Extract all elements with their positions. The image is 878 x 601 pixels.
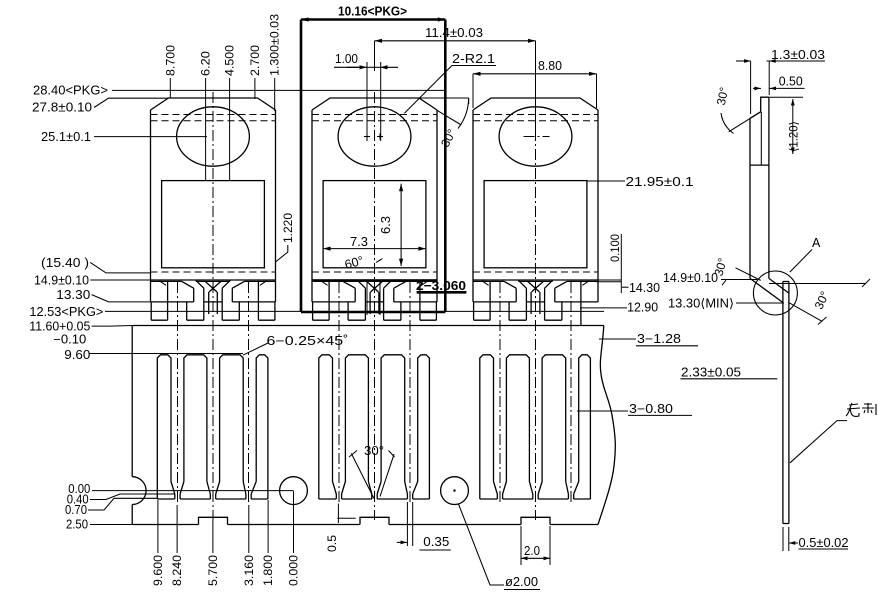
package P2 dashed line near bottom [312, 271, 437, 273]
dimension 7.3 inside P2 pad [323, 248, 426, 250]
svg-text:⟨1.20⟩: ⟨1.20⟩ [788, 121, 801, 152]
svg-text:1.300±0.03: 1.300±0.03 [270, 14, 282, 76]
svg-text:0.000: 0.000 [289, 555, 301, 586]
P2 emphasized bottom line [312, 279, 437, 282]
P1 lead shoulder B (right) with chamfer [232, 281, 244, 288]
10.16 PKG thick dimension box [301, 18, 445, 21]
package P3 body outline [473, 98, 598, 110]
P1 slot 2 [184, 355, 207, 482]
package P1 body outline [151, 98, 276, 110]
strip left edge with half-hole notch [131, 326, 133, 477]
P3 slot 2 [506, 355, 529, 482]
dimension 6.3 inside P2 pad [400, 184, 402, 266]
svg-text:7.3: 7.3 [350, 235, 368, 249]
P3 outer shoulder notch slashes [482, 281, 489, 286]
P3 slot 1 [480, 355, 494, 499]
side view section tick and inner lead line [750, 164, 769, 166]
package P3 inner pad rectangle [484, 181, 587, 268]
tooling hole 1 in rail [280, 477, 308, 505]
side view tip chamfer and front edge [750, 112, 761, 119]
svg-text:−0.10: −0.10 [53, 333, 86, 347]
svg-text:25.1±0.1: 25.1±0.1 [41, 130, 91, 144]
svg-text:0.5±0.02: 0.5±0.02 [799, 536, 849, 550]
svg-text:2.50: 2.50 [66, 518, 88, 532]
package P3 dashed line near bottom [473, 271, 598, 273]
svg-text:9.600: 9.600 [153, 555, 165, 586]
P2 lead shoulder A (left) with chamfer [343, 281, 355, 288]
svg-text:ø2.00: ø2.00 [505, 575, 538, 589]
P3 shoulder bottom edge segments [473, 301, 516, 303]
svg-text:4.500: 4.500 [225, 45, 237, 76]
package P3 vertical centerline [535, 92, 537, 520]
P1 center lead crossed notch [205, 281, 217, 292]
svg-text:6−0.25×45˚: 6−0.25×45˚ [267, 334, 349, 348]
P1 shoulder bottom edge segments [151, 301, 194, 303]
strip bottom edge with index notches [132, 524, 198, 526]
ordinate leaders 8.700/6.20/4.500/2.700/1.300 into P1 [169, 78, 171, 99]
package P3 mounting hole ellipse [499, 107, 572, 166]
P3 center lead crossed notch [528, 281, 540, 292]
package P3 dashed lines near top [473, 114, 598, 116]
package P1 mounting hole ellipse [177, 107, 250, 166]
svg-text:5.700: 5.700 [208, 555, 220, 586]
P3 lead shoulder B (right) with chamfer [555, 281, 567, 288]
P3 tongue chamfers [518, 280, 526, 288]
svg-text:(15.40 ): (15.40 ) [41, 256, 89, 270]
package P2 dashed lines near top [312, 114, 437, 116]
svg-text:12.53<PKG>: 12.53<PKG> [29, 305, 103, 319]
svg-text:14.9±0.10: 14.9±0.10 [663, 271, 718, 285]
dimension 0.5 rotated [337, 504, 339, 524]
P2 slot 4 [418, 355, 430, 499]
P3 lead shoulder A (left) with chamfer [504, 281, 516, 288]
P1 gap lower walls and U bottoms [167, 281, 169, 320]
svg-text:2.700: 2.700 [250, 45, 262, 76]
svg-text:28.40<PKG>: 28.40<PKG> [33, 84, 108, 98]
P3 tongue tall walls [525, 288, 527, 320]
P3 lead tip tapers and slot bottoms [494, 482, 498, 495]
P2 tongue tall walls [364, 288, 366, 320]
svg-text:2.0: 2.0 [524, 544, 540, 558]
svg-text:12.90: 12.90 [627, 301, 658, 315]
svg-text:14.9±0.10: 14.9±0.10 [34, 274, 89, 288]
side view back edge [768, 97, 770, 278]
svg-text:0.100: 0.100 [610, 234, 622, 262]
P1 slot 1 [157, 355, 171, 499]
svg-text:3−1.28: 3−1.28 [637, 332, 681, 346]
P3 shoulder top edge segments [473, 280, 504, 282]
P2 slot 1 [319, 355, 333, 499]
P1 shoulder top edge segments [151, 280, 182, 282]
side view lower lead [782, 282, 784, 524]
P3 slot 4 [579, 355, 591, 499]
dimension (1.20) rotated [769, 96, 803, 98]
svg-text:27.8±0.10: 27.8±0.10 [32, 101, 92, 115]
side view top tab [761, 97, 769, 112]
P3 slot 3 [542, 355, 566, 482]
burr note text in Chinese with leader [790, 421, 847, 463]
P1 tongue tall walls [203, 288, 205, 320]
svg-text:0.5: 0.5 [327, 535, 339, 552]
P1 lead tip tapers and slot bottoms [171, 482, 175, 495]
P2 gap lower walls and U bottoms [328, 281, 330, 320]
svg-text:1.220: 1.220 [283, 213, 295, 243]
P1 slot 4 [256, 355, 268, 499]
svg-text:9.60: 9.60 [64, 348, 90, 362]
svg-text:8.80: 8.80 [538, 59, 562, 73]
P2 lead tip tapers and slot bottoms [333, 482, 337, 495]
P2 shoulder top edge segments [312, 280, 343, 282]
svg-text:1.800: 1.800 [263, 555, 275, 586]
knee dimension ticks and 30 deg angles [769, 283, 866, 285]
svg-text:11.4±0.03: 11.4±0.03 [425, 26, 483, 40]
svg-text:A: A [812, 236, 821, 250]
svg-text:2.33±0.05: 2.33±0.05 [681, 366, 741, 380]
svg-text:11.60+0.05: 11.60+0.05 [29, 320, 90, 334]
svg-text:21.95±0.1: 21.95±0.1 [626, 175, 694, 189]
dimension 2.0 at P3 index notch [520, 526, 522, 565]
svg-text:8.240: 8.240 [172, 555, 184, 586]
dimension 8.80 for P3 width [473, 73, 597, 75]
svg-text:13.30: 13.30 [56, 288, 90, 302]
svg-text:30°: 30° [364, 444, 384, 458]
svg-text:10.16<PKG>: 10.16<PKG> [338, 4, 407, 19]
P2 center lead crossed notch [367, 281, 379, 292]
package P1 dashed line near bottom [151, 271, 276, 273]
P1 tongue chamfers [196, 280, 204, 288]
P1 lead shoulder A (left) with chamfer [182, 281, 194, 288]
dimension 0.100 rotated at P3 bottom [597, 279, 622, 281]
P3 gap lower walls and U bottoms [489, 281, 491, 320]
P1 slot 3 [220, 355, 244, 482]
dimension 0.35 at P2 lead neck [406, 502, 408, 546]
svg-text:6.20: 6.20 [201, 51, 213, 76]
label diameter 2.00 with leader to hole 2 [459, 504, 505, 585]
svg-text:1.3±0.03: 1.3±0.03 [771, 48, 825, 62]
P2 tongue chamfers [357, 280, 365, 288]
strip top edge [132, 325, 604, 327]
P1 outer shoulder notch slashes [159, 281, 166, 286]
ordinate labels 9.600...0.000 with leaders [157, 500, 159, 553]
center cross marks in P2 hole [364, 136, 370, 138]
package P2 inner pad rectangle [323, 181, 426, 268]
svg-text:3.160: 3.160 [244, 555, 256, 586]
P2 shoulder bottom edge segments [312, 301, 355, 303]
label 21.95±0.1 with leader to P3 pad corner [587, 180, 625, 182]
svg-text:2-R2.1: 2-R2.1 [452, 52, 495, 66]
package P2 body outline [312, 98, 437, 110]
side view knee bend diagonals [750, 278, 783, 302]
tooling hole 2 in rail with center dot [441, 477, 469, 505]
P3 lead centerlines [499, 282, 501, 505]
svg-text:0.35: 0.35 [423, 535, 449, 549]
P3 hole horizontal centerline [524, 136, 550, 138]
svg-text:3−0.80: 3−0.80 [629, 402, 673, 416]
dimension 11.4±0.03 [375, 40, 536, 42]
P1 lead centerlines [177, 282, 179, 505]
svg-text:13.30⟨MIN⟩: 13.30⟨MIN⟩ [668, 297, 734, 311]
P2 slot 2 [345, 355, 368, 482]
svg-text:0.50: 0.50 [779, 75, 803, 89]
dimension 1.00 with extension lines to hole center marks [367, 66, 380, 68]
svg-text:14.30: 14.30 [629, 281, 660, 295]
detail circle A [753, 271, 797, 315]
P2 lead shoulder B (right) with chamfer [394, 281, 406, 288]
package P1 dashed lines near top [151, 114, 276, 116]
svg-text:2−3.060: 2−3.060 [416, 278, 466, 293]
svg-text:8.700: 8.700 [165, 45, 177, 76]
P2 lead centerlines [338, 282, 340, 505]
package P2 mounting hole ellipse [338, 107, 411, 166]
strip torn break edge [598, 326, 615, 525]
package P1 inner pad rectangle [162, 181, 265, 268]
svg-text:1.00: 1.00 [335, 52, 358, 66]
svg-text:6.3: 6.3 [379, 216, 393, 234]
P2 outer shoulder notch slashes [321, 281, 328, 286]
P2 slot 3 [381, 355, 405, 482]
svg-text:0.70: 0.70 [65, 503, 87, 517]
package P1 vertical centerline [212, 92, 214, 520]
package P2 vertical centerline [374, 92, 376, 520]
